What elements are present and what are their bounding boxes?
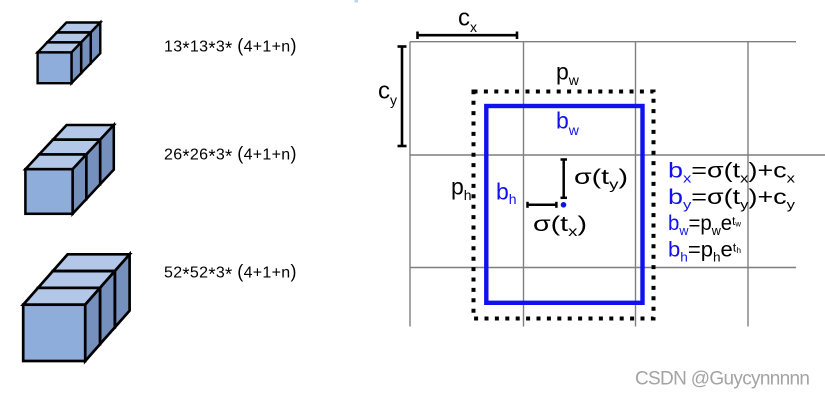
svg-text:σ(tx): σ(tx) [533, 212, 587, 239]
svg-text:CSDN @Guycynnnnn: CSDN @Guycynnnnn [635, 369, 810, 390]
anchor box (dotted) [474, 92, 654, 319]
grid horizontal line 2 [410, 154, 825, 156]
center dot [561, 202, 567, 208]
grid vertical line 3 [635, 42, 637, 327]
grid vertical line 1 [409, 42, 411, 327]
bounding box (blue) [486, 106, 642, 303]
svg-text:σ(ty): σ(ty) [574, 165, 628, 192]
grid horizontal line 3 [410, 267, 796, 269]
c_x measurement bracket [418, 32, 518, 40]
grid vertical line 4 [747, 42, 749, 327]
sigma(t_y) marker [561, 160, 568, 198]
svg-text:13*13*3* (4+1+n): 13*13*3* (4+1+n) [164, 36, 297, 59]
cube stack 26x26 [25, 125, 113, 214]
grid horizontal line 1 [410, 41, 796, 43]
cube stack 13x13 [38, 23, 101, 84]
svg-text:bh=pheth: bh=pheth [668, 238, 741, 264]
sigma(t_x) marker [528, 202, 557, 208]
stray clipped dot at top edge [355, 0, 359, 3]
svg-text:52*52*3* (4+1+n): 52*52*3* (4+1+n) [164, 262, 297, 285]
svg-text:bw=pwetw: bw=pwetw [668, 212, 741, 238]
svg-text:26*26*3* (4+1+n): 26*26*3* (4+1+n) [164, 144, 297, 167]
cube stack 52x52 [23, 254, 129, 361]
grid vertical line 2 [523, 42, 525, 327]
c_y measurement bracket [398, 47, 407, 147]
